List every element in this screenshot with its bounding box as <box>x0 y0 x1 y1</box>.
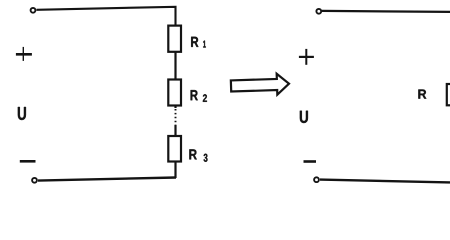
resistor R2 <box>168 80 181 106</box>
minus sign left source <box>20 160 36 163</box>
node terminal top-left <box>31 8 36 13</box>
wire bottom-left horizontal <box>38 178 176 181</box>
label R1-R <box>191 37 198 47</box>
plus sign right source <box>299 49 314 65</box>
label R3-3 <box>204 154 208 162</box>
label R3-R <box>189 149 196 159</box>
node terminal bottom-right <box>314 177 319 182</box>
minus sign right source <box>304 160 317 163</box>
label R2-2 <box>203 94 207 102</box>
wire R1 to R2 <box>174 52 176 80</box>
wire bottom-right horizontal <box>320 180 450 183</box>
wire top-right horizontal <box>322 11 450 12</box>
node terminal bottom-left <box>32 178 37 183</box>
resistor R3 <box>168 136 181 162</box>
wire top-left horizontal with drop to R1 <box>37 7 176 26</box>
label R1-1 <box>203 41 206 48</box>
label R2-R <box>191 90 198 100</box>
wire stub below R2 <box>174 106 176 109</box>
dotted wire ellipsis <box>175 109 177 125</box>
resistor R1 <box>168 26 181 52</box>
wire above R3 <box>174 125 176 136</box>
label U-right <box>300 111 308 123</box>
label U-left <box>18 107 26 120</box>
label R-right <box>418 90 426 99</box>
plus sign left source <box>16 47 32 61</box>
node terminal top-right <box>316 9 321 14</box>
resistor R equivalent (partially visible at right edge) <box>447 84 450 105</box>
wire below R3 <box>174 162 176 179</box>
equivalence arrow <box>231 73 290 96</box>
